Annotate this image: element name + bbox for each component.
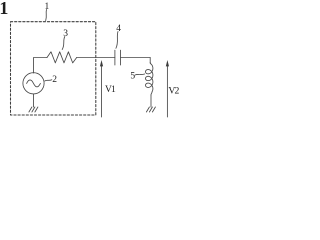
wire from source top to resistor bbox=[34, 58, 48, 74]
V1 arrow line bbox=[101, 66, 103, 117]
wire coil bottom to ground bbox=[150, 95, 152, 107]
leader for label 5 bbox=[135, 74, 145, 75]
boundary box 1 (dashed enclosure) bbox=[11, 22, 96, 115]
leader for label 3 bbox=[62, 37, 65, 50]
svg-text:4: 4 bbox=[116, 24, 121, 34]
svg-text:2: 2 bbox=[52, 75, 57, 85]
svg-text:1: 1 bbox=[45, 2, 50, 12]
AC source 2 circle bbox=[23, 73, 44, 94]
svg-text:5: 5 bbox=[130, 71, 135, 81]
wire corner down to coil bbox=[149, 58, 151, 64]
svg-text:3: 3 bbox=[63, 29, 68, 39]
leader for label 2 bbox=[45, 80, 52, 81]
ground under source bbox=[29, 107, 38, 112]
V2 arrowhead bbox=[166, 60, 169, 66]
inductor L 5 coil bbox=[146, 63, 153, 96]
V1 arrowhead bbox=[100, 60, 103, 66]
svg-text:V1: V1 bbox=[105, 85, 116, 95]
resistor R 3 zigzag bbox=[47, 52, 77, 63]
leader for label 4 bbox=[116, 32, 118, 49]
ground under inductor bbox=[146, 107, 155, 112]
wire resistor to capacitor bbox=[77, 57, 115, 59]
capacitor C 4 right plate bbox=[120, 50, 122, 65]
leader for label 1 bbox=[45, 10, 48, 21]
svg-text:V2: V2 bbox=[168, 86, 179, 97]
capacitor C 4 left plate bbox=[114, 50, 116, 65]
AC source sine wave bbox=[27, 80, 41, 87]
wire capacitor to corner bbox=[121, 57, 151, 59]
svg-text:1: 1 bbox=[0, 0, 8, 18]
V2 arrow line bbox=[166, 66, 168, 117]
wire source bottom to ground bbox=[33, 94, 35, 107]
